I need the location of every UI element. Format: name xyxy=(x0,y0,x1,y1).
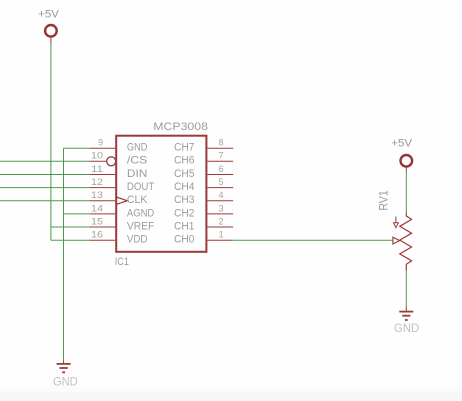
wire +5V P2 to RV1 top xyxy=(405,172,407,213)
wire RV1 bottom to ground xyxy=(405,271,407,307)
svg-text:GND: GND xyxy=(127,142,148,154)
power +5V P2 (right) xyxy=(391,138,412,172)
ground GND (bottom left) xyxy=(53,360,78,388)
IC1 pin numbers left xyxy=(91,138,103,240)
svg-text:+5V: +5V xyxy=(391,138,412,150)
IC1 pin names left xyxy=(127,142,155,246)
svg-text:9: 9 xyxy=(98,138,103,148)
svg-text:RV1: RV1 xyxy=(376,190,390,211)
svg-text:14: 14 xyxy=(91,203,103,213)
svg-text:/CS: /CS xyxy=(127,155,147,167)
svg-text:+5V: +5V xyxy=(38,8,59,20)
svg-text:DOUT: DOUT xyxy=(127,181,155,193)
wire net DOUT to left edge xyxy=(0,187,90,189)
wire net +5V branch to VDD pin 16 xyxy=(51,239,90,241)
RV1 wiper arrow xyxy=(393,237,400,244)
RV1 adjust arrow xyxy=(395,217,397,223)
svg-text:CH1: CH1 xyxy=(174,220,195,232)
svg-text:CH0: CH0 xyxy=(174,234,195,246)
bottom window strip xyxy=(0,387,462,401)
svg-text:CH4: CH4 xyxy=(174,181,195,193)
wire net GND from pin 9 corner xyxy=(64,147,90,149)
wire net +5V vertical from P1 down to VDD row xyxy=(50,44,52,240)
IC1 pin stubs right (pins 8-1) xyxy=(207,148,233,240)
IC1 pin 13 clock mark xyxy=(116,197,127,204)
wire net CH0 to RV1 wiper xyxy=(233,239,393,241)
IC1 pin 10 inversion bubble xyxy=(107,157,116,166)
svg-text:12: 12 xyxy=(91,177,103,187)
IC1 pin numbers right xyxy=(219,138,224,240)
svg-text:6: 6 xyxy=(219,164,224,174)
svg-text:7: 7 xyxy=(219,151,224,161)
svg-text:8: 8 xyxy=(219,138,224,148)
svg-text:2: 2 xyxy=(219,216,224,226)
svg-text:5: 5 xyxy=(219,177,224,187)
svg-text:13: 13 xyxy=(91,190,103,200)
svg-text:16: 16 xyxy=(91,230,103,240)
svg-text:1: 1 xyxy=(219,230,224,240)
svg-text:CLK: CLK xyxy=(127,194,148,206)
wire net GND branch to AGND pin 14 xyxy=(64,213,90,215)
svg-text:VREF: VREF xyxy=(127,220,155,232)
potentiometer RV1 xyxy=(376,190,411,271)
IC1 pin names right xyxy=(174,142,195,246)
svg-text:CH6: CH6 xyxy=(174,155,195,167)
svg-text:3: 3 xyxy=(219,203,224,213)
IC IC1 MCP3008 body xyxy=(116,136,206,252)
wire net GND vertical down to ground xyxy=(63,148,65,360)
svg-text:CH5: CH5 xyxy=(174,168,195,180)
power +5V P1 (top left) xyxy=(38,8,59,44)
svg-text:AGND: AGND xyxy=(127,207,155,219)
ground GND (right) xyxy=(394,306,419,335)
svg-text:CH3: CH3 xyxy=(174,194,195,206)
svg-text:4: 4 xyxy=(219,190,224,200)
svg-text:GND: GND xyxy=(394,321,419,335)
svg-text:CH2: CH2 xyxy=(174,207,195,219)
svg-text:GND: GND xyxy=(53,374,78,388)
svg-text:11: 11 xyxy=(91,164,103,174)
svg-text:DIN: DIN xyxy=(127,168,147,180)
svg-text:VDD: VDD xyxy=(127,234,148,246)
wire net DIN to left edge xyxy=(0,174,90,176)
wire net +5V branch to VREF pin 15 xyxy=(51,226,90,228)
wire net CLK to left edge xyxy=(0,200,90,202)
svg-text:15: 15 xyxy=(91,216,103,226)
wire net /CS to left edge xyxy=(0,160,90,162)
IC1 pin stubs left (pins 9-16) xyxy=(90,148,116,240)
svg-text:10: 10 xyxy=(91,151,103,161)
svg-text:CH7: CH7 xyxy=(174,142,195,154)
RV1 zigzag body xyxy=(400,213,412,271)
svg-text:IC1: IC1 xyxy=(115,256,129,268)
svg-text:MCP3008: MCP3008 xyxy=(153,121,208,133)
